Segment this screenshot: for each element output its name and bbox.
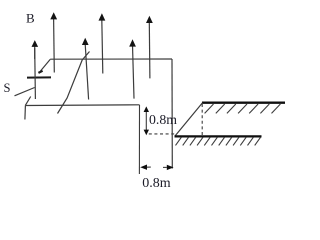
dimension 0.8m horizontal: right arrowhead with tail bbox=[163, 165, 174, 170]
battery long plate bbox=[27, 76, 51, 78]
extension line down from bottom rail corner bbox=[138, 105, 140, 174]
wire: from battery down to switch terminal (shares arrow-A shaft) bbox=[34, 48, 37, 99]
battery short plate bbox=[38, 71, 42, 73]
hatching under upper shelf bbox=[205, 104, 281, 113]
hatching under lower floor bbox=[176, 137, 261, 145]
dashed vertical drop line at shelf edge bbox=[201, 104, 203, 135]
wire: right edge of loop extended down as dimension extension line bbox=[171, 59, 173, 169]
wire: bottom rail of loop bbox=[25, 104, 139, 107]
lower floor surface (thick) bbox=[175, 135, 262, 137]
slanted riser from floor ledge up to shelf edge bbox=[175, 103, 203, 136]
upper shelf surface (thick) bbox=[202, 102, 285, 104]
dimension 0.8m horizontal: left arrowhead with tail bbox=[140, 165, 151, 170]
wire: top rail of field-region loop bbox=[50, 58, 172, 60]
field arrow 5 (short) bbox=[129, 39, 136, 98]
field arrow 1 (short, over switch column) bbox=[32, 40, 39, 59]
field arrow 6 (tall) bbox=[146, 16, 153, 79]
svg-text:0.8m: 0.8m bbox=[142, 176, 171, 191]
sliding rod across the rails bbox=[58, 52, 90, 114]
svg-text:0.8m: 0.8m bbox=[149, 112, 177, 127]
dimension 0.8m vertical: shaft bbox=[145, 112, 147, 130]
field arrow 3 (short) bbox=[82, 38, 89, 100]
switch S blade (open) bbox=[15, 88, 35, 96]
field arrow 2 (tall) bbox=[50, 12, 57, 72]
dimension 0.8m vertical: down arrowhead bbox=[144, 130, 149, 136]
wire: slanted left edge from top-left corner down to battery bbox=[40, 59, 50, 71]
wire: stub below bottom-left corner bbox=[24, 106, 27, 120]
svg-text:S: S bbox=[4, 81, 11, 95]
wire: switch lower terminal link to bottom-left corner bbox=[25, 97, 30, 106]
dimension 0.8m vertical: up arrowhead bbox=[144, 106, 149, 112]
field arrow 4 (tall) bbox=[99, 13, 106, 73]
dashed floor-level reference line bbox=[149, 133, 177, 135]
svg-text:B: B bbox=[26, 11, 35, 26]
